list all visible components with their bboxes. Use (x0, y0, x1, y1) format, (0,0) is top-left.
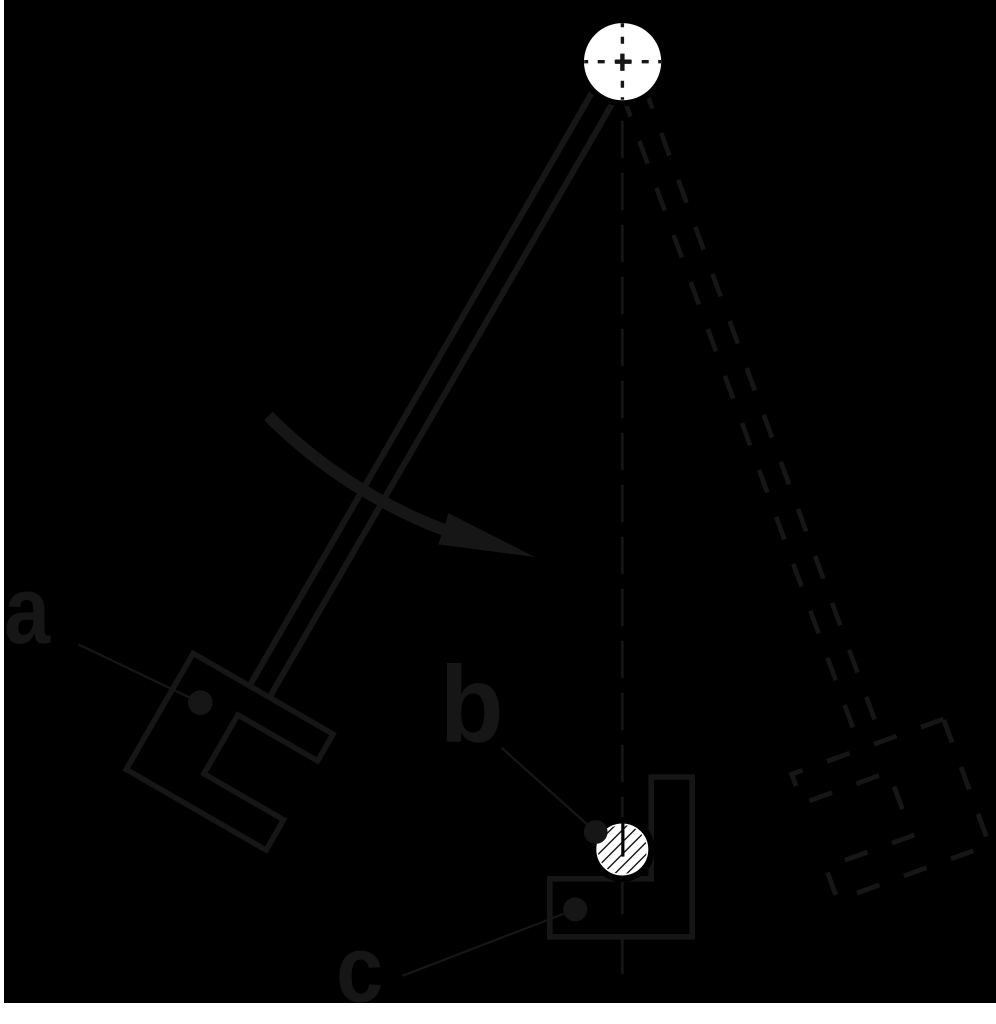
specimen b circle (593, 820, 651, 878)
dot b (584, 820, 608, 844)
dashed hammer (rest position) (792, 719, 990, 900)
pivot bearing circle (581, 20, 664, 103)
pendulum rod (solid, swung left) left edge (250, 82, 599, 686)
anvil / support c (step-shaped block) (550, 777, 692, 937)
leader line a (78, 644, 200, 702)
specimen hatching (585, 813, 658, 886)
swing-direction curved arrow (arc about pivot) (268, 416, 445, 530)
pivot centre cross horizontal (615, 60, 631, 64)
svg-text:a: a (4, 556, 51, 663)
dashed rod right edge (644, 86, 882, 741)
centre line below specimen (621, 882, 624, 974)
pivot centre cross vertical (620, 54, 624, 71)
pivot crosshair vertical (621, 23, 624, 99)
leader line c (403, 909, 575, 975)
pivot crosshair horizontal (584, 60, 661, 63)
pendulum centre line (vertical dashed) (621, 121, 624, 860)
svg-text:c: c (336, 917, 383, 1022)
dot a (188, 690, 213, 715)
leader line b (502, 748, 596, 832)
svg-text:b: b (440, 644, 504, 765)
pendulum rod (solid) right edge (270, 94, 619, 698)
dashed rod (rest position, right) left edge (622, 94, 860, 749)
specimen notch line (621, 823, 624, 857)
hammer a (solid C-shaped block) (126, 653, 333, 850)
arrowhead (438, 513, 534, 557)
dot c (563, 897, 587, 921)
